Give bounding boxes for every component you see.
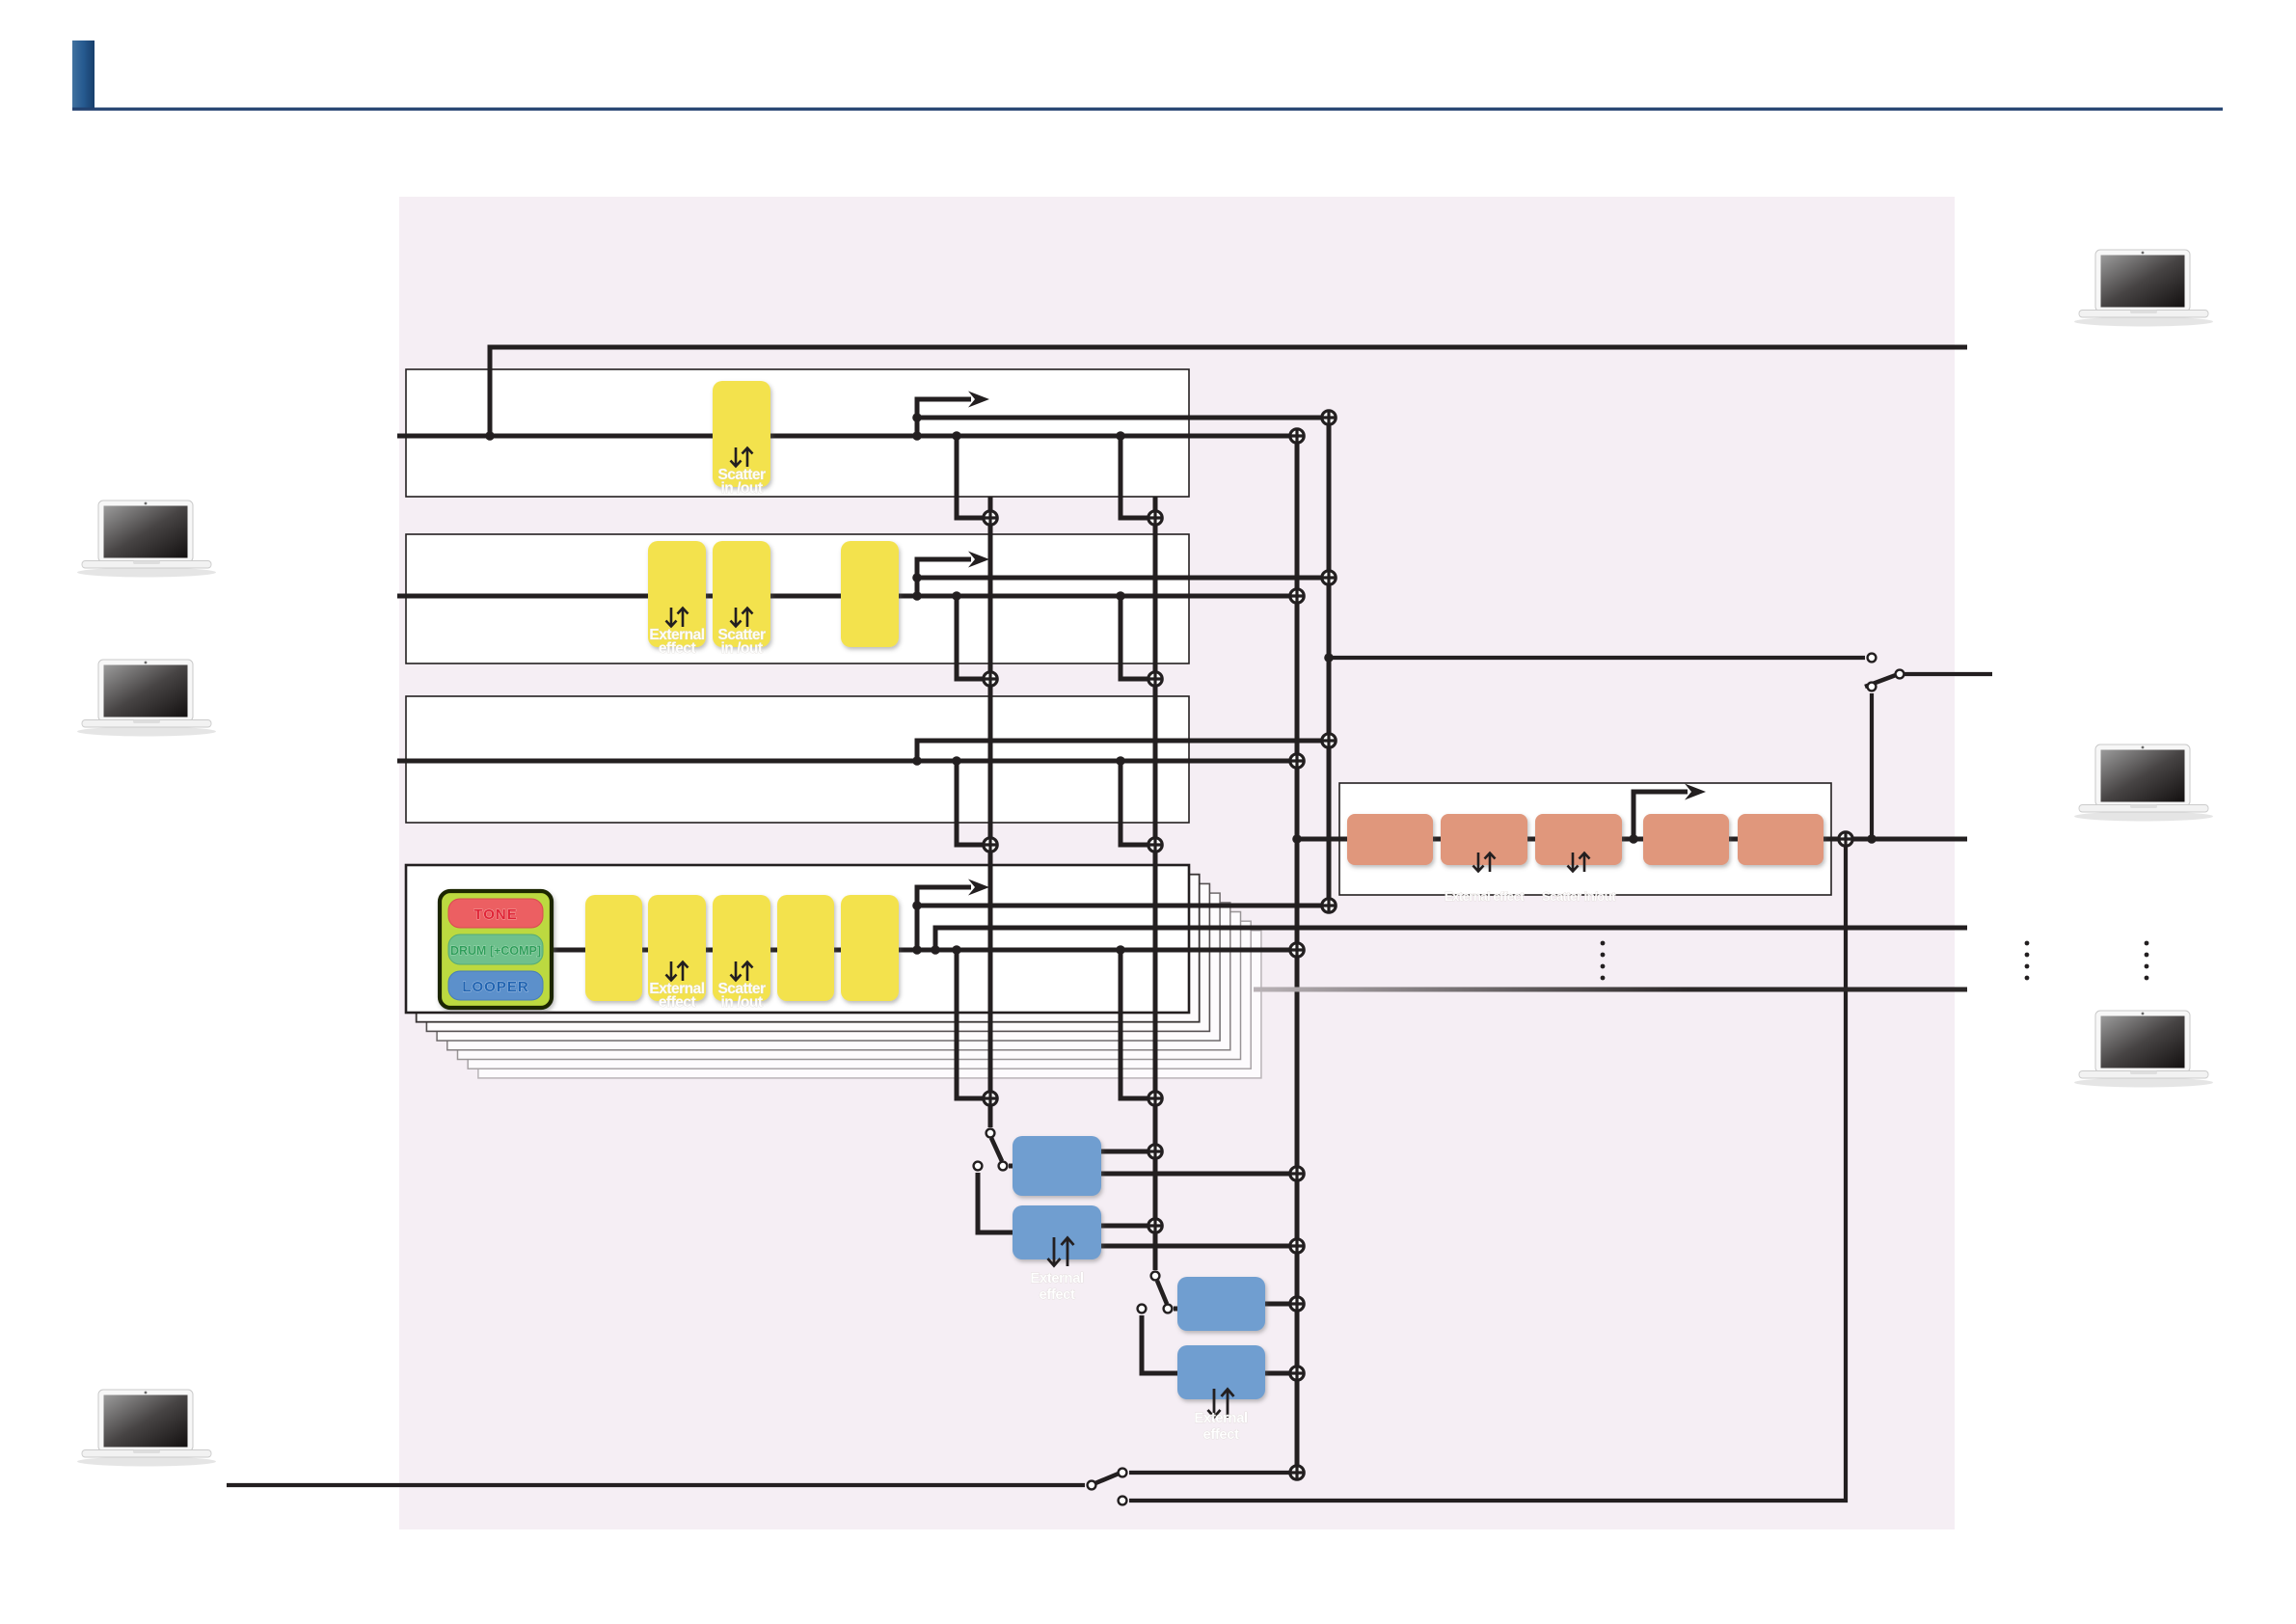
wire delay box out to reverb send — [1101, 1150, 1148, 1154]
track 1 box — [406, 369, 1189, 497]
wire track3 cue branch — [917, 741, 1329, 761]
wire track4 main line — [552, 948, 1297, 953]
summing node mix track2 — [1290, 589, 1304, 603]
track 5-8 stacked sheet 4 — [447, 903, 1230, 1050]
wire delay send bus — [988, 497, 993, 1127]
junction track3 split — [912, 756, 922, 766]
wire track1 cue branch — [917, 399, 1329, 436]
track4 block 4 — [777, 895, 834, 1001]
ellipsis tracks outer — [2145, 941, 2149, 946]
wire phones switch lower contact to master line — [1870, 693, 1874, 839]
wire track4 reverb send tap — [1121, 950, 1148, 1098]
svg-text:DRUM [+COMP]: DRUM [+COMP] — [450, 944, 541, 958]
svg-text:effect: effect — [1202, 1426, 1239, 1443]
summing node delay send track4 — [984, 1092, 997, 1105]
summing node mix ext2 return — [1290, 1367, 1304, 1380]
contact reverb common — [1164, 1305, 1173, 1313]
svg-text:in /out: in /out — [721, 640, 763, 657]
contact output common — [1088, 1481, 1096, 1490]
wire track4 delay send tap — [957, 950, 983, 1098]
junction track2 split — [912, 591, 922, 601]
wire track2 cue branch — [917, 559, 1329, 596]
wire track2 delay send tap — [957, 596, 983, 679]
track 5-8 stacked sheet 1 — [417, 875, 1200, 1022]
svg-text:TONE: TONE — [473, 907, 517, 923]
computer right mid — [2074, 744, 2213, 822]
summing node mix ext1 return — [1290, 1239, 1304, 1253]
contact output to mix — [1119, 1469, 1127, 1477]
wire track1 reverb send tap — [1121, 436, 1148, 518]
summing node mix delay return — [1290, 1167, 1304, 1180]
wire track3 reverb send tap — [1121, 761, 1148, 845]
wire track 5-8 USB-out gray line — [1254, 988, 1967, 992]
contact delay from bus — [986, 1129, 995, 1138]
track 5-8 stacked sheet 6 — [468, 921, 1251, 1069]
wire reverb switch to reverb box — [1174, 1307, 1177, 1312]
TONE button — [448, 899, 543, 928]
ellipsis tracks mid — [2025, 941, 2030, 946]
wire track3 main line — [397, 759, 1297, 764]
track 5-8 stacked sheet 5 — [458, 912, 1241, 1060]
wire mix bus — [1295, 436, 1300, 1473]
junction track1 USB tap — [485, 431, 495, 441]
master FX block 2 — [1441, 814, 1527, 865]
junction track2 delay tap — [952, 591, 961, 601]
wire output switch upper contact to mix bus — [1129, 1471, 1297, 1475]
switch phones select lever — [1865, 675, 1896, 687]
wire cue bus — [1327, 418, 1332, 906]
LOOPER button — [448, 971, 543, 1000]
in/out arrows track2 scatter — [731, 608, 753, 627]
master FX box — [1339, 783, 1831, 895]
wire cue line to phones switch — [1329, 656, 1865, 660]
svg-text:in /out: in /out — [721, 480, 763, 497]
track4 block 5 — [841, 895, 899, 1001]
summing node reverb send track4 — [1148, 1092, 1162, 1105]
track4 scatter block — [713, 895, 770, 1001]
contact reverb from bus — [1151, 1272, 1160, 1281]
summing node mix track1 — [1290, 429, 1304, 443]
delay box — [1013, 1136, 1101, 1196]
junction track1 delay tap — [952, 431, 961, 441]
wire computer input line — [227, 1483, 1085, 1487]
summing node cue track2 — [1322, 571, 1336, 584]
wire reverb send bus — [1153, 497, 1158, 1270]
ellipsis tracks inner — [1601, 941, 1606, 946]
svg-text:in /out: in /out — [721, 994, 763, 1011]
computer left upper — [77, 501, 216, 578]
summing node cue track3 — [1322, 734, 1336, 747]
track 3 box — [406, 696, 1189, 823]
master FX block 4 — [1643, 814, 1729, 865]
wire delay switch to delay box — [1009, 1164, 1013, 1169]
wire reverb switch to external effect box — [1142, 1315, 1177, 1373]
summing node reverb send track1 — [1148, 511, 1162, 525]
summing node delay send track1 — [984, 511, 997, 525]
summing node mix track4 — [1290, 943, 1304, 957]
wire master return to output switch — [1129, 847, 1846, 1501]
wire phones output — [1904, 672, 1992, 676]
track selector panel — [440, 891, 552, 1008]
track4 block 1 — [585, 895, 642, 1001]
computer top right — [2074, 250, 2213, 327]
diagram pink background — [399, 197, 1955, 1529]
summing node cue track4 — [1322, 899, 1336, 912]
computer bottom left — [77, 1390, 216, 1467]
svg-text:effect: effect — [659, 640, 696, 657]
svg-text:External: External — [1194, 1410, 1248, 1426]
contact phones master — [1868, 683, 1877, 691]
wire track1 USB-out top line — [490, 347, 1967, 436]
summing node reverb send track2 — [1148, 672, 1162, 686]
junction track2 reverb tap — [1116, 591, 1125, 601]
wire delay box out to mix bus — [1101, 1172, 1297, 1177]
track2 scatter block — [713, 541, 770, 647]
switch output select lever — [1095, 1474, 1119, 1483]
in/out arrows master block3 — [1568, 853, 1590, 872]
junction track4 split — [912, 945, 922, 955]
junction track4 delay tap — [952, 945, 961, 955]
header blue bar — [72, 41, 95, 108]
wire reverb box out to mix bus — [1265, 1302, 1297, 1307]
header rule — [72, 108, 2223, 111]
wire track4 USB-out branch — [935, 928, 1967, 950]
reverb box — [1177, 1277, 1265, 1331]
junction cue bus to phones switch — [1324, 653, 1334, 663]
junction master out phones — [1867, 834, 1877, 844]
in/out arrows master block2 — [1473, 853, 1496, 872]
contact phones cue — [1868, 654, 1877, 663]
junction track1 reverb tap — [1116, 431, 1125, 441]
wire track2 main line — [397, 594, 1297, 599]
summing node mix track3 — [1290, 754, 1304, 768]
in/out arrows track4 external — [666, 961, 689, 981]
track1 scatter block — [713, 381, 770, 487]
wire master FX output line — [1853, 837, 1967, 842]
wire external effect 1 out to mix bus — [1101, 1244, 1297, 1249]
track2 external effect block — [648, 541, 706, 647]
contact phones common — [1896, 670, 1904, 679]
summing node delay send track3 — [984, 838, 997, 852]
junction track1 split — [912, 431, 922, 441]
arrowhead track2 record arrow — [968, 552, 989, 568]
switch reverb source lever — [1157, 1281, 1167, 1304]
junction track4 reverb tap — [1116, 945, 1125, 955]
track 4 box — [406, 865, 1189, 1013]
summing node reverb send track3 — [1148, 838, 1162, 852]
wire external effect 1 out to reverb send — [1101, 1224, 1148, 1229]
junction track3 reverb tap — [1116, 756, 1125, 766]
summing node cue track1 — [1322, 411, 1336, 424]
svg-text:effect: effect — [1039, 1286, 1075, 1303]
junction track4 USB branch — [931, 945, 940, 955]
contact reverb to external — [1138, 1305, 1147, 1313]
track 5-8 stacked sheet 7 — [478, 931, 1261, 1078]
track2 plain block — [841, 541, 899, 647]
wire track4 cue branch — [917, 887, 1329, 950]
svg-text:External effect: External effect — [1445, 889, 1525, 904]
svg-text:External: External — [1030, 1270, 1084, 1286]
summing node mix reverb return — [1290, 1297, 1304, 1311]
contact delay to external — [974, 1162, 983, 1171]
switch delay source lever — [991, 1138, 1002, 1161]
junction track4 cue — [912, 901, 922, 910]
in/out arrows reverb external — [1208, 1389, 1234, 1418]
wire track1 delay send tap — [957, 436, 983, 518]
computer right lower — [2074, 1011, 2213, 1088]
wire track3 delay send tap — [957, 761, 983, 845]
contact delay common — [999, 1162, 1008, 1171]
computer left mid — [77, 660, 216, 737]
wire external effect 2 out to mix bus — [1265, 1371, 1297, 1376]
wire track2 reverb send tap — [1121, 596, 1148, 679]
reverb external effect box — [1177, 1345, 1265, 1399]
summing node master out — [1839, 832, 1852, 846]
wire delay switch to external effect box — [978, 1173, 1013, 1232]
summing node delay send track2 — [984, 672, 997, 686]
svg-text:effect: effect — [659, 994, 696, 1011]
in/out arrows track4 scatter — [731, 961, 753, 981]
track4 external effect block — [648, 895, 706, 1001]
svg-text:LOOPER: LOOPER — [462, 979, 528, 995]
arrowhead track1 record arrow — [968, 392, 989, 408]
summing node reverb send ext1 out — [1148, 1219, 1162, 1232]
track 5-8 stacked sheet 2 — [426, 883, 1209, 1031]
contact output from master — [1119, 1497, 1127, 1505]
junction track2 cue — [912, 573, 922, 582]
wire master FX record branch — [1634, 792, 1688, 839]
wire master FX input line — [1297, 837, 1838, 842]
svg-text:Scatter in/out: Scatter in/out — [1542, 889, 1616, 904]
track 5-8 stacked sheet 3 — [437, 893, 1220, 1041]
in/out arrows track1 scatter — [731, 447, 753, 467]
arrowhead master record arrow — [1685, 784, 1706, 800]
junction track1 cue — [912, 413, 922, 422]
master FX block 1 — [1347, 814, 1433, 865]
delay external effect box — [1013, 1205, 1101, 1259]
arrowhead track4 record arrow — [968, 880, 989, 896]
master FX block 3 — [1535, 814, 1622, 865]
summing node mix computer in — [1290, 1466, 1304, 1479]
junction track3 delay tap — [952, 756, 961, 766]
summing node reverb send delay out — [1148, 1145, 1162, 1158]
wire track1 main line — [397, 434, 1297, 439]
master FX block 5 — [1738, 814, 1823, 865]
in/out arrows track2 external — [666, 608, 689, 627]
in/out arrows delay external — [1048, 1237, 1074, 1266]
DRUM button — [448, 934, 543, 964]
track 2 box — [406, 534, 1189, 663]
junction master record branch — [1629, 834, 1638, 844]
junction mix bus to master FX — [1292, 834, 1302, 844]
